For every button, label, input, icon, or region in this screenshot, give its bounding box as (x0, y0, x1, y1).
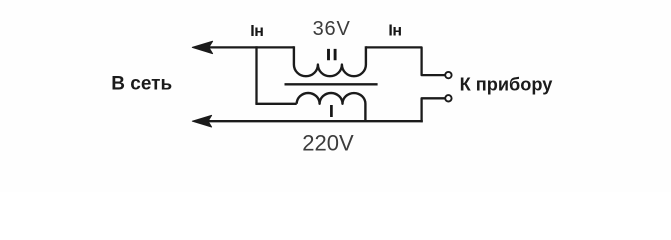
svg-text:36V: 36V (313, 18, 351, 40)
svg-text:Iн: Iн (388, 23, 401, 40)
svg-text:Iн: Iн (250, 23, 263, 40)
arrow: top line to mains (192, 41, 212, 53)
svg-text:220V: 220V (302, 131, 354, 156)
wire: junction drop from top wire to primary winding (255, 46, 257, 104)
wire: top right segment to output terminal (366, 47, 445, 75)
wire: bottom right riser to output terminal (422, 98, 445, 122)
arrow: bottom line to mains (192, 115, 211, 127)
terminal: upper output (445, 72, 451, 78)
wire: bottom mains conductor (207, 120, 423, 122)
winding number I mark (330, 105, 333, 117)
svg-text:В сеть: В сеть (111, 73, 172, 94)
terminal: lower output (445, 95, 451, 101)
wire: top mains conductor (207, 46, 294, 48)
core: transformer core bar (285, 83, 378, 85)
winding II: secondary coil 36V (294, 46, 366, 76)
winding I: primary coil 220V (297, 93, 366, 121)
svg-text:К прибору: К прибору (460, 74, 554, 94)
winding number II mark (329, 49, 336, 60)
wire: primary left lead (255, 103, 296, 105)
